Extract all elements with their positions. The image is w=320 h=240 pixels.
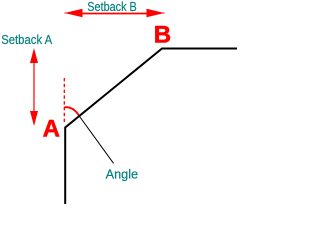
svg-text:Setback A: Setback A [1, 32, 52, 47]
svg-text:Angle: Angle [106, 167, 139, 182]
vertical reference dashed line [63, 78, 65, 124]
svg-text:A: A [43, 116, 60, 143]
leader line to Angle label [79, 115, 114, 163]
svg-text:B: B [154, 22, 171, 49]
setback B dimension arrow (horizontal double-headed) [65, 9, 165, 17]
svg-text:Setback B: Setback B [87, 0, 137, 14]
angle arc [64, 107, 79, 115]
wall and roof polyline [65, 49, 237, 205]
setback A dimension arrow (vertical double-headed) [30, 48, 38, 126]
